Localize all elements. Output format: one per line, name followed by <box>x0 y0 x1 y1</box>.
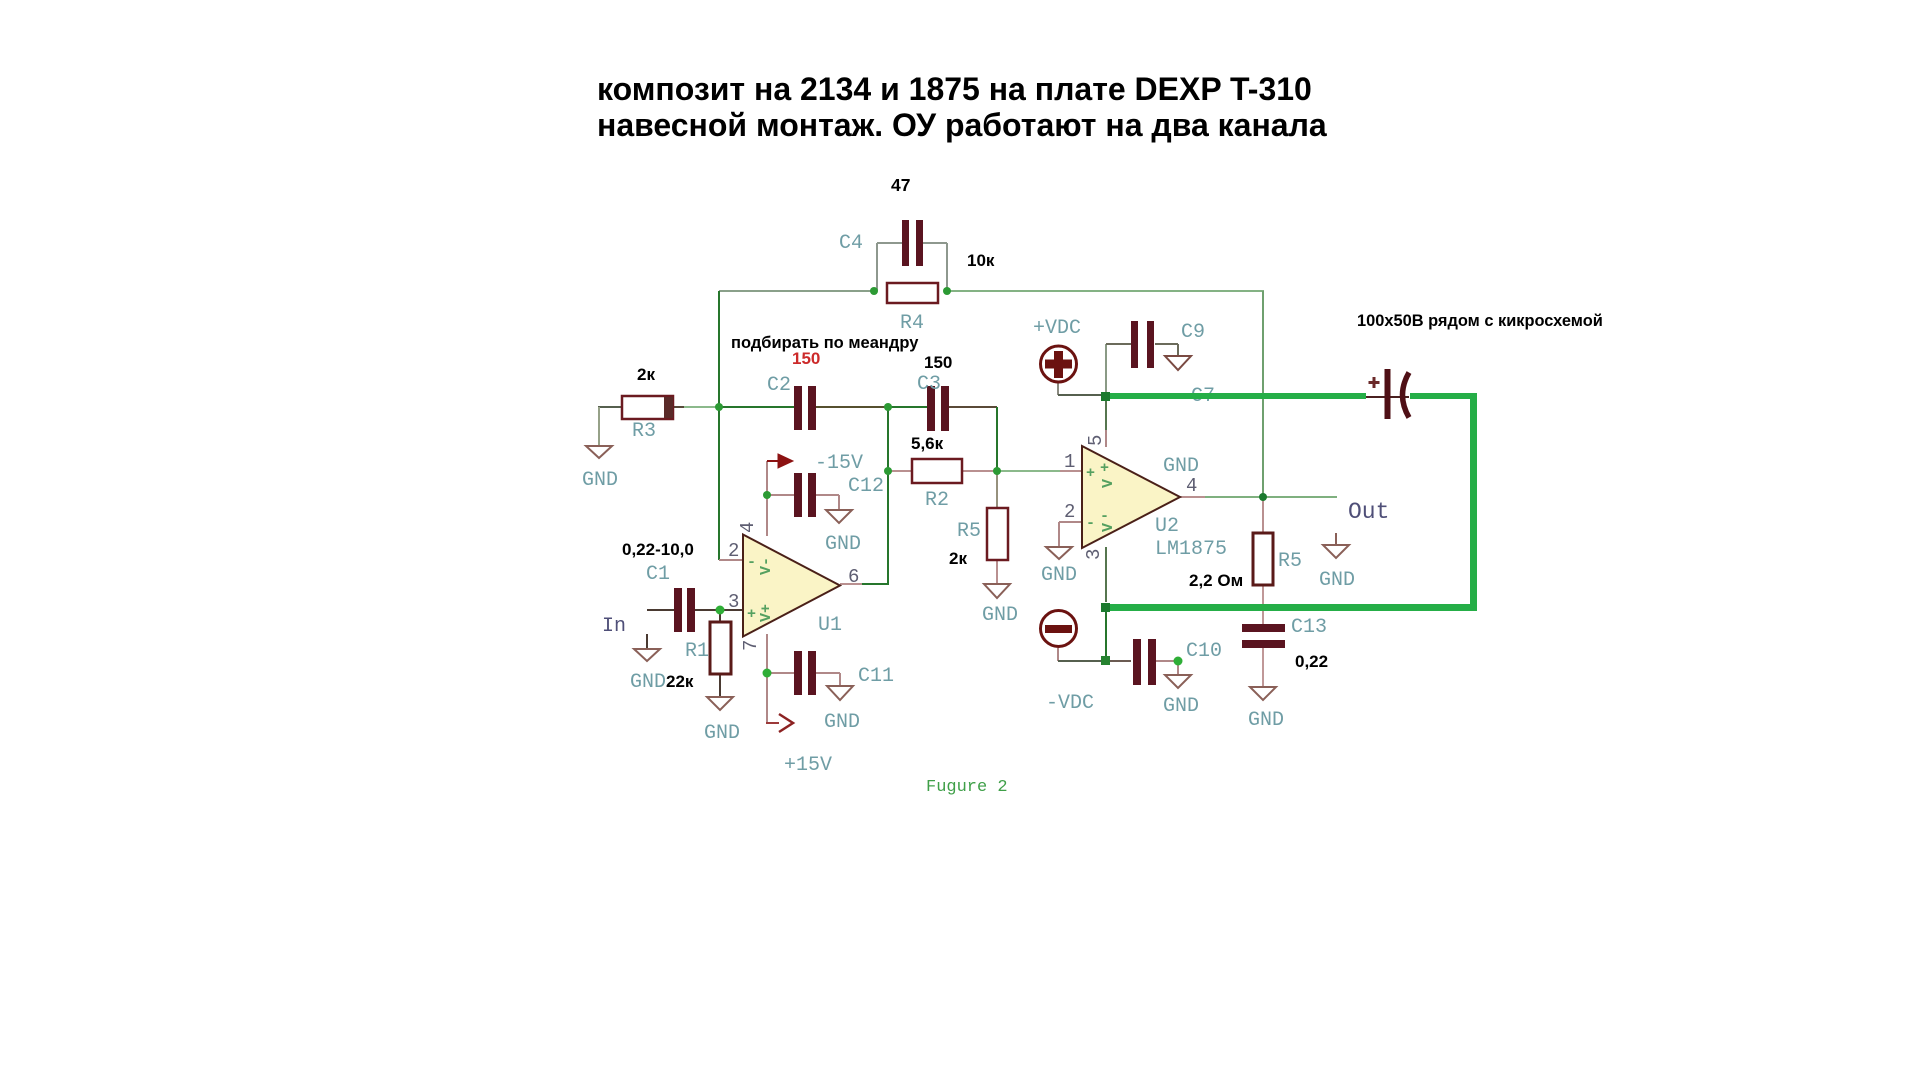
wire -15V arrow lead <box>767 460 778 462</box>
node junction C10 left <box>1101 656 1110 665</box>
svg-text:+: + <box>747 606 756 623</box>
capacitor C3 <box>927 386 949 431</box>
wire C2 to node B <box>816 406 888 408</box>
svg-text:0,22-10,0: 0,22-10,0 <box>622 540 694 559</box>
capacitor C11 <box>794 651 816 695</box>
svg-text:U2: U2 <box>1155 515 1179 538</box>
capacitor C12 <box>794 473 816 517</box>
wire C9 gnd stem <box>1177 344 1179 356</box>
ground Out <box>1323 545 1349 558</box>
capacitor C1 <box>674 588 695 632</box>
wire U2 pin2 stub <box>1059 521 1082 523</box>
wire out net <box>1205 496 1337 498</box>
svg-text:C1: C1 <box>646 563 670 586</box>
svg-text:V: V <box>1100 523 1117 532</box>
wire C11 left <box>767 672 794 674</box>
wire +15V arrow lead <box>766 722 779 724</box>
resistor R5 left <box>987 508 1008 560</box>
wire U1 pin6 output <box>862 583 889 585</box>
wire C12 right <box>816 494 839 496</box>
svg-text:-15V: -15V <box>815 452 863 475</box>
svg-text:-: - <box>1100 508 1109 525</box>
wire R2 right <box>962 470 997 472</box>
wire C13 gnd stem <box>1262 648 1264 687</box>
svg-text:7: 7 <box>740 640 762 651</box>
svg-text:R4: R4 <box>900 312 924 335</box>
svg-text:подбирать по меандру: подбирать по меандру <box>731 334 919 352</box>
ground R3 <box>586 446 612 458</box>
wire thick green bottom <box>1106 604 1477 611</box>
power arrow +15V open chevron <box>779 714 793 732</box>
capacitor C9 <box>1131 321 1154 368</box>
svg-text:2к: 2к <box>949 549 967 568</box>
power +VDC symbol <box>1041 346 1077 382</box>
svg-text:R3: R3 <box>632 420 656 443</box>
capacitor C10 <box>1133 639 1156 685</box>
svg-text:C3: C3 <box>917 373 941 396</box>
wire U1 pin7 stem <box>766 634 768 723</box>
svg-text:5,6к: 5,6к <box>911 434 944 453</box>
wire R2 left <box>888 470 912 472</box>
wire C10 gnd stem <box>1177 661 1179 675</box>
resistor R1 <box>710 622 731 674</box>
node junction R4 right <box>943 287 951 295</box>
wire C3 net drop <box>996 407 998 471</box>
wire out gnd stem <box>1335 533 1337 545</box>
node junction C12 <box>763 491 771 499</box>
svg-text:R5: R5 <box>1278 550 1302 573</box>
wire In gnd stem <box>646 634 648 649</box>
svg-text:+: + <box>1100 460 1109 477</box>
wire C10 left <box>1106 660 1131 662</box>
wire C9 pin5 vertical upper <box>1105 344 1107 392</box>
power -VDC symbol <box>1041 611 1077 647</box>
svg-text:V: V <box>1100 479 1117 488</box>
svg-text:150: 150 <box>792 349 820 368</box>
svg-text:5: 5 <box>1085 435 1107 446</box>
wire U2 pin2 gnd drop <box>1058 522 1060 547</box>
wire R5 right top <box>1262 497 1264 533</box>
ground U2 pin2 <box>1046 547 1072 559</box>
node junction C11 <box>763 669 772 678</box>
capacitor polarized on green wire <box>1366 369 1409 419</box>
wire R3 right to node <box>673 406 684 408</box>
svg-text:R5: R5 <box>957 520 981 543</box>
wire -VDC stem <box>1057 648 1059 661</box>
wire C12 gnd stem <box>838 495 840 510</box>
svg-text:C12: C12 <box>848 475 884 498</box>
svg-text:GND: GND <box>825 533 861 556</box>
wire -VDC to node <box>1058 660 1106 662</box>
wire top feedback left <box>719 290 874 292</box>
wire R1 bottom <box>719 674 721 697</box>
title text <box>597 71 1327 143</box>
wire R5 left bottom <box>996 560 998 584</box>
wire C4 left drop <box>876 243 878 291</box>
svg-text:47: 47 <box>891 175 910 195</box>
wire U2 pin3 lower <box>1105 609 1107 661</box>
wire C4 right drop <box>946 243 948 291</box>
wire thick green top <box>1102 393 1366 399</box>
node junction out feedback <box>1259 493 1267 501</box>
wire C4 left lead <box>877 242 902 244</box>
resistor R3 <box>622 396 673 419</box>
svg-text:10к: 10к <box>967 251 995 270</box>
svg-text:150: 150 <box>924 353 952 372</box>
svg-text:Out: Out <box>1348 499 1389 525</box>
wire R3 right light segment <box>684 406 719 408</box>
svg-text:3: 3 <box>1083 549 1105 560</box>
svg-text:4: 4 <box>737 522 759 533</box>
svg-text:C4: C4 <box>839 232 863 255</box>
svg-text:GND: GND <box>1319 569 1355 592</box>
svg-text:C9: C9 <box>1181 321 1205 344</box>
node junction C2-C3 <box>884 403 892 411</box>
node thick green bottom <box>1101 603 1110 612</box>
svg-text:+VDC: +VDC <box>1033 317 1081 340</box>
svg-text:2к: 2к <box>637 365 655 384</box>
wire C10 right <box>1155 660 1178 662</box>
ground C11 <box>827 686 853 700</box>
node junction R2 right <box>993 467 1001 475</box>
wire feedback vertical to out <box>1262 291 1264 497</box>
svg-text:4: 4 <box>1186 475 1197 497</box>
capacitor C4 <box>902 220 923 266</box>
wire C11 right <box>816 672 840 674</box>
svg-text:GND: GND <box>630 671 666 694</box>
wire R1 top <box>719 610 721 622</box>
wire node B vertical <box>887 407 889 584</box>
wire R3 gnd drop <box>598 407 600 446</box>
wire +VDC stem <box>1057 383 1059 395</box>
wire U1 pin2 stub <box>719 559 743 561</box>
power arrow -15V <box>778 454 793 468</box>
wire node B to C3 <box>888 406 927 408</box>
svg-text:2: 2 <box>728 540 739 562</box>
ground C12 <box>826 510 852 523</box>
node junction C10 right <box>1174 657 1183 666</box>
svg-text:+15V: +15V <box>784 754 832 777</box>
wire U2 pin5 stem <box>1105 399 1107 430</box>
svg-text:1: 1 <box>1064 451 1075 473</box>
svg-text:+: + <box>1086 465 1095 482</box>
op-amp U2 <box>1082 446 1180 548</box>
svg-text:In: In <box>602 615 626 638</box>
wire U1 pin4 stem <box>766 461 768 536</box>
svg-text:GND: GND <box>1248 709 1284 732</box>
svg-text:GND: GND <box>1041 564 1077 587</box>
svg-text:композит на 2134 и 1875 на пла: композит на 2134 и 1875 на плате DEXP T-… <box>597 71 1312 107</box>
wire C4 right lead <box>923 242 947 244</box>
wire thick green top after cap <box>1410 393 1477 399</box>
svg-text:U1: U1 <box>818 614 842 637</box>
capacitor C2 <box>794 386 816 430</box>
wire C9 right <box>1155 343 1178 345</box>
wire left vertical bus <box>718 291 720 560</box>
wire +VDC to node <box>1058 394 1104 396</box>
svg-text:2,2 Ом: 2,2 Ом <box>1189 571 1243 590</box>
svg-text:C13: C13 <box>1291 616 1327 639</box>
node thick green top <box>1101 392 1110 401</box>
svg-text:3: 3 <box>728 591 739 613</box>
wire R5 right to C13 <box>1262 585 1264 624</box>
svg-text:2: 2 <box>1064 501 1075 523</box>
wire U1 pin6 stub <box>840 583 862 585</box>
wire C11 gnd stem <box>839 673 841 686</box>
node junction R4 left <box>870 287 878 295</box>
svg-text:V+: V+ <box>758 604 775 622</box>
node junction R2 left <box>884 467 892 475</box>
wire thick green right vertical <box>1470 393 1477 611</box>
ground C10 <box>1165 675 1191 688</box>
op-amp U1 <box>743 535 840 637</box>
svg-text:LM1875: LM1875 <box>1155 538 1227 561</box>
svg-text:V-: V- <box>758 557 775 575</box>
svg-text:0,22: 0,22 <box>1295 652 1328 671</box>
wire to U2 pin1 <box>997 470 1060 472</box>
wire C12 left <box>767 494 794 496</box>
svg-text:GND: GND <box>824 711 860 734</box>
wire U2 pin1 stub <box>1060 470 1082 472</box>
svg-text:R2: R2 <box>925 489 949 512</box>
svg-text:GND: GND <box>582 469 618 492</box>
wire In to C1 <box>647 609 674 611</box>
svg-text:C10: C10 <box>1186 640 1222 663</box>
wire C1 to U1 pin3 <box>695 609 743 611</box>
svg-text:GND: GND <box>1163 695 1199 718</box>
wire R3 left <box>598 406 622 408</box>
ground C13 <box>1250 687 1276 700</box>
svg-text:100x50В рядом с кикросхемой: 100x50В рядом с кикросхемой <box>1357 312 1603 330</box>
svg-text:-: - <box>1086 515 1095 532</box>
svg-text:-VDC: -VDC <box>1046 692 1094 715</box>
svg-text:R1: R1 <box>685 640 709 663</box>
svg-text:Fugure 2: Fugure 2 <box>926 778 1008 797</box>
svg-text:-: - <box>747 554 756 571</box>
ground R1 <box>707 697 733 710</box>
ground R5 left <box>984 584 1010 598</box>
svg-text:GND: GND <box>704 722 740 745</box>
svg-text:6: 6 <box>848 566 859 588</box>
wire U2 output stub <box>1180 496 1205 498</box>
node junction R3-C2 <box>715 403 723 411</box>
ground C9 <box>1165 356 1191 370</box>
svg-text:22к: 22к <box>666 672 694 691</box>
wire U2 pin3 stem <box>1105 547 1107 602</box>
wire node to C2 <box>719 406 794 408</box>
wire C9 left <box>1106 343 1131 345</box>
wire C3 right <box>949 406 997 408</box>
resistor R4 <box>887 283 938 303</box>
capacitor C13 <box>1242 624 1285 648</box>
svg-text:GND: GND <box>982 604 1018 627</box>
wire top feedback right <box>947 290 1264 292</box>
wire R5 left top <box>996 471 998 508</box>
ground In <box>634 649 660 661</box>
svg-text:навесной монтаж. ОУ работают н: навесной монтаж. ОУ работают на два кана… <box>597 107 1327 143</box>
resistor R2 <box>912 459 962 483</box>
svg-text:C11: C11 <box>858 665 894 688</box>
svg-text:C2: C2 <box>767 374 791 397</box>
resistor R5 right <box>1253 533 1273 585</box>
node junction pin3 R1 <box>716 606 725 615</box>
